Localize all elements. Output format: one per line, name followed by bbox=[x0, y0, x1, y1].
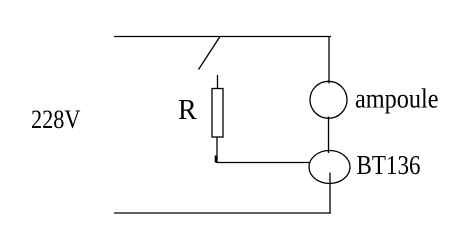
junction tick at gate corner bbox=[215, 156, 218, 163]
wire right drop from top line to lamp bbox=[328, 37, 330, 84]
wire resistor bottom lead bbox=[216, 137, 218, 163]
wire gate to triac bbox=[217, 162, 310, 164]
switch S blade bbox=[199, 37, 221, 70]
wire top line bbox=[114, 36, 331, 38]
triac BT136 ellipse bbox=[309, 151, 350, 184]
lamp (ampoule) circle bbox=[310, 81, 347, 118]
svg-text:228V: 228V bbox=[31, 105, 81, 134]
resistor R body bbox=[212, 89, 223, 138]
svg-text:ampoule: ampoule bbox=[355, 84, 439, 114]
svg-text:BT136: BT136 bbox=[357, 150, 421, 180]
wire switch contact to resistor top bbox=[217, 75, 219, 89]
wire triac bottom lead bbox=[329, 173, 331, 214]
wire bottom line bbox=[114, 212, 331, 214]
wire lamp to triac bbox=[328, 117, 330, 154]
svg-text:R: R bbox=[178, 95, 197, 126]
